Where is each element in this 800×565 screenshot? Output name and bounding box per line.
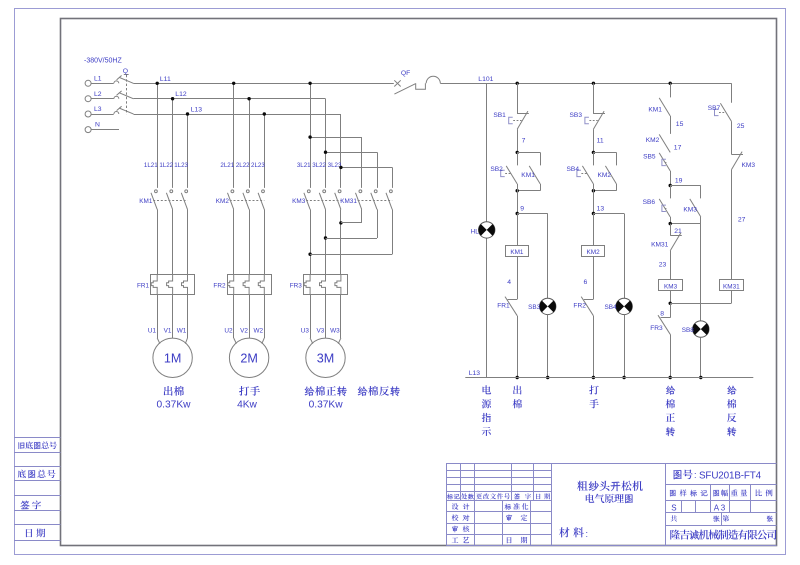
- pushbutton SB6 (NO): [643, 186, 671, 217]
- wire lamp2 to rail: [622, 315, 625, 380]
- wire 11: [594, 129, 604, 152]
- motor 2M: [229, 338, 268, 377]
- coil KM1: [506, 246, 529, 257]
- lamp SB4: [605, 298, 633, 314]
- terminal L1: [85, 76, 114, 87]
- lamp SB3: [528, 298, 556, 314]
- label 出棉 (vertical): [513, 385, 522, 408]
- label 出棉 0.37Kw: [157, 386, 192, 410]
- svg-text:3L21: 3L21: [297, 162, 311, 169]
- svg-text:U3: U3: [301, 327, 310, 334]
- wire HL branch: [486, 83, 488, 377]
- wire KM31 output phase 3 crossover: [310, 209, 392, 254]
- wire KM2 output phase 3: [264, 209, 266, 274]
- wire rail to KM1 contact: [670, 83, 672, 97]
- svg-text:KM2: KM2: [646, 137, 660, 144]
- wire 7: [518, 129, 526, 152]
- node SB2/KM1 join: [516, 189, 519, 192]
- svg-text:FR2: FR2: [213, 282, 226, 289]
- node 11: [592, 151, 595, 154]
- node 9: [516, 212, 519, 215]
- wire KM31 feed phase 1: [308, 135, 361, 187]
- svg-text:23: 23: [659, 261, 667, 268]
- svg-text:11: 11: [597, 137, 604, 144]
- breaker Q pole 1: [114, 76, 134, 84]
- svg-text:KM2: KM2: [587, 249, 601, 256]
- wire KM31 feed phase 2: [324, 151, 378, 188]
- left ID strip grid: [14, 438, 61, 541]
- wire KM3 output phase 1: [308, 209, 311, 274]
- svg-text:QF: QF: [401, 70, 410, 77]
- wire KM3 output phase 2: [324, 209, 327, 274]
- wire L13 bus: [134, 107, 341, 115]
- svg-text:1L23: 1L23: [174, 162, 188, 169]
- svg-text:SB2: SB2: [490, 166, 503, 173]
- circuit breaker QF: [394, 70, 440, 94]
- svg-text:8: 8: [660, 311, 664, 318]
- company name 隆吉诚机械制造有限公司: [670, 530, 776, 540]
- lamp HL: [471, 222, 495, 238]
- wire FR3 to L13 rail: [669, 334, 672, 379]
- wire KM3 output phase 3: [339, 209, 342, 274]
- contact KM3 aux (seal-in): [670, 186, 701, 217]
- node 21: [669, 217, 682, 235]
- contactor KM1 main contacts: [139, 190, 187, 209]
- label 给棉反转: [358, 386, 400, 396]
- svg-text:SB5: SB5: [643, 153, 656, 160]
- svg-text:19: 19: [675, 177, 683, 184]
- svg-text:V1: V1: [164, 327, 172, 334]
- labels U1 V1 W1: [148, 327, 187, 334]
- drawing title 电气原理图: [586, 494, 633, 503]
- node SB4/KM2 join: [592, 189, 595, 192]
- wire KM31 feed phase 3: [339, 166, 392, 188]
- svg-text:U2: U2: [224, 327, 233, 334]
- wire KM31 output phase 1 crossover: [341, 209, 362, 223]
- svg-text:L101: L101: [478, 76, 493, 83]
- wire feeder KM1 phase 1: [156, 82, 159, 188]
- wire 13 to coil: [593, 214, 595, 246]
- coil KM3: [659, 280, 683, 291]
- wire feeder KM1 phase 3: [186, 112, 189, 188]
- row 工艺 / 日期: [452, 537, 528, 543]
- wire 13: [594, 184, 605, 214]
- wire 9 to coil: [517, 214, 519, 246]
- contact KM2 aux (seal-in): [593, 152, 616, 190]
- svg-text:4Kw: 4Kw: [237, 399, 257, 410]
- wire rail corner to SB7: [731, 83, 733, 103]
- node rail-colD: [669, 82, 672, 85]
- svg-text:W3: W3: [330, 327, 340, 334]
- wire L11 bus: [134, 76, 394, 84]
- svg-text:SB4: SB4: [605, 304, 618, 311]
- title block outline: [446, 463, 776, 546]
- thermal relay FR1: [137, 275, 194, 295]
- pushbutton SB7 (NO): [708, 103, 732, 121]
- breaker Q pole 2: [114, 91, 134, 99]
- wire feeder KM3 phase 3: [340, 114, 342, 188]
- wire 25: [732, 121, 745, 154]
- contactor KM31 main contacts: [340, 190, 392, 209]
- svg-text::: :: [586, 529, 589, 539]
- wire L11 to control rail: [440, 76, 731, 84]
- svg-text:N: N: [95, 122, 100, 129]
- svg-text:7: 7: [522, 137, 526, 144]
- label 打手 (vertical): [589, 385, 599, 408]
- svg-text:SB6: SB6: [643, 199, 656, 206]
- svg-text:KM31: KM31: [723, 283, 740, 290]
- svg-text:L1: L1: [94, 76, 102, 83]
- svg-text:3M: 3M: [317, 351, 335, 365]
- label 旧底图总号: [18, 441, 56, 449]
- labels 1L21 1L22 1L23: [144, 162, 189, 169]
- svg-text:-380V/50HZ: -380V/50HZ: [84, 57, 122, 64]
- wire FR1 to L13 rail: [516, 316, 519, 379]
- svg-text:SFU201B-FT4: SFU201B-FT4: [699, 470, 762, 481]
- wire KM31 output phase 2 crossover: [326, 209, 378, 238]
- wire 6: [584, 257, 594, 300]
- coil KM2: [582, 246, 605, 257]
- wire KM1 output phase 1: [157, 209, 159, 274]
- svg-text:15: 15: [676, 121, 684, 128]
- svg-text:27: 27: [738, 216, 746, 223]
- svg-text:L13: L13: [469, 370, 481, 377]
- svg-text::: :: [694, 470, 697, 480]
- header 图样标记 图幅 重量 比例: [670, 489, 773, 496]
- svg-text:L11: L11: [160, 76, 171, 83]
- contact KM1 aux (NO): [648, 98, 670, 116]
- contactor KM2 main contacts: [216, 190, 265, 209]
- terminal N: [85, 122, 119, 133]
- label 给棉正转 0.37Kw: [305, 386, 347, 410]
- contact FR1 (NC thermal): [497, 297, 517, 316]
- svg-text:L2: L2: [94, 91, 102, 98]
- node 19: [669, 184, 672, 187]
- motor 1M: [153, 338, 192, 377]
- svg-text:HL: HL: [471, 228, 480, 235]
- lamp branch 出棉: [517, 214, 548, 299]
- svg-text:13: 13: [597, 205, 605, 212]
- wire coil KM31 to node 8: [670, 291, 731, 304]
- label 签字: [21, 500, 41, 509]
- pushbutton SB4 (NO): [567, 152, 594, 184]
- wire 8: [670, 291, 672, 304]
- svg-text:W1: W1: [177, 327, 187, 334]
- svg-text:W2: W2: [254, 327, 264, 334]
- contact FR3 (NC thermal): [650, 315, 670, 334]
- svg-text:KM3: KM3: [683, 206, 697, 213]
- wire KM2 output phase 2: [249, 209, 251, 274]
- cells S / A3: [671, 503, 726, 512]
- contact KM31 interlock (NC): [651, 224, 682, 251]
- svg-text:SB1: SB1: [493, 112, 506, 119]
- wire rail to SB1: [517, 83, 519, 114]
- labels 2L21 2L22 2L23: [220, 162, 265, 169]
- terminal L3: [85, 106, 114, 117]
- coil KM31: [720, 280, 744, 291]
- wire feeder KM3 phase 1: [308, 82, 311, 188]
- motor 3M leads: [310, 295, 341, 344]
- svg-text:SB7: SB7: [708, 105, 721, 112]
- svg-text:2L22: 2L22: [236, 162, 250, 169]
- wire 19: [671, 171, 683, 186]
- svg-text:L13: L13: [191, 107, 203, 114]
- motor 3M: [306, 338, 345, 377]
- svg-text:KM31: KM31: [651, 241, 669, 248]
- svg-text:FR3: FR3: [290, 282, 303, 289]
- row 审核: [452, 526, 469, 533]
- svg-text:SB4: SB4: [567, 166, 580, 173]
- label 底图总号: [18, 470, 56, 479]
- svg-text:17: 17: [674, 144, 682, 151]
- wire 27: [732, 170, 746, 280]
- wire rail to SB3: [593, 83, 595, 114]
- svg-text:KM2: KM2: [598, 172, 612, 179]
- svg-text:4: 4: [507, 279, 511, 286]
- pushbutton SB3 (NC): [570, 111, 605, 129]
- node 7: [516, 151, 519, 154]
- terminal L2: [85, 91, 114, 102]
- svg-text:KM1: KM1: [139, 198, 153, 205]
- labels 3L21 3L22 3L23: [297, 162, 342, 169]
- wire 23: [659, 251, 671, 280]
- svg-text:L3: L3: [94, 106, 102, 113]
- svg-text:Q: Q: [123, 68, 128, 75]
- svg-text:L12: L12: [175, 91, 187, 98]
- svg-text:KM1: KM1: [510, 249, 524, 256]
- svg-text:1M: 1M: [164, 351, 182, 365]
- contactor KM3 main contacts: [292, 190, 341, 209]
- svg-text:KM31: KM31: [340, 198, 357, 205]
- svg-text:9: 9: [520, 205, 524, 212]
- svg-text:0.37Kw: 0.37Kw: [157, 399, 192, 410]
- wire KM1 output phase 2: [172, 209, 174, 274]
- svg-text:KM1: KM1: [648, 107, 662, 114]
- drawing number 图号 SFU201B-FT4: [674, 469, 762, 481]
- label 材料: [559, 527, 588, 539]
- pushbutton SB5 (NO): [643, 153, 670, 171]
- motor 1M leads: [157, 295, 187, 344]
- svg-text:S: S: [671, 503, 676, 512]
- wire feeder KM2 phase 1: [232, 82, 235, 188]
- svg-text:KM3: KM3: [742, 162, 756, 169]
- label 给棉正转 (vertical): [666, 386, 676, 436]
- wire FR2 to L13 rail: [592, 316, 595, 379]
- label 日期: [26, 529, 45, 538]
- svg-text:SB3: SB3: [570, 112, 583, 119]
- label 电源指示: [482, 385, 491, 436]
- breaker Q pole 3: [114, 106, 134, 114]
- svg-text:KM3: KM3: [664, 283, 678, 290]
- wire lamp1 to rail: [546, 315, 549, 380]
- svg-text:2L21: 2L21: [220, 162, 234, 169]
- wire 15: [671, 116, 684, 134]
- svg-text:1L21: 1L21: [144, 162, 158, 169]
- wire feeder KM2 phase 3: [263, 112, 266, 188]
- svg-text:KM1: KM1: [521, 172, 535, 179]
- svg-text:KM2: KM2: [216, 198, 230, 205]
- svg-text:SB3: SB3: [528, 304, 541, 311]
- svg-text:U1: U1: [148, 327, 157, 334]
- right box grid: [666, 485, 777, 526]
- wire 9: [518, 184, 525, 214]
- node rail-SB3: [592, 82, 595, 85]
- node rail-SB1: [516, 82, 519, 85]
- pushbutton SB2 (NO): [490, 152, 517, 184]
- svg-text:SB8: SB8: [682, 327, 695, 334]
- svg-text:FR2: FR2: [573, 303, 586, 310]
- node 13: [592, 212, 595, 215]
- svg-text:6: 6: [584, 279, 588, 286]
- svg-text:V2: V2: [240, 327, 248, 334]
- wire feeder KM3 phase 2: [325, 99, 327, 188]
- wire feeder KM1 phase 2: [171, 97, 174, 188]
- supply label -380V/50HZ: [84, 57, 122, 64]
- wire 4: [507, 257, 517, 300]
- wire L13 return rail: [465, 370, 753, 378]
- svg-text:1L22: 1L22: [159, 162, 173, 169]
- svg-text:KM3: KM3: [292, 198, 306, 205]
- svg-text:FR1: FR1: [497, 303, 510, 310]
- revision table grid: [446, 463, 551, 546]
- wire node8 to FR3: [670, 303, 672, 318]
- wire KM1 output phase 3: [187, 209, 189, 274]
- labels U3 V3 W3: [301, 327, 340, 334]
- svg-text:A 3: A 3: [714, 503, 726, 512]
- svg-text:FR3: FR3: [650, 325, 663, 332]
- row 设计 / 标准化: [452, 503, 529, 510]
- wire L12 bus: [134, 91, 326, 98]
- motor 2M leads: [234, 295, 265, 344]
- svg-text:FR1: FR1: [137, 282, 150, 289]
- drawing title 粗纱头开松机: [577, 481, 642, 491]
- wire lamp3 to rail: [699, 337, 702, 379]
- svg-text:0.37Kw: 0.37Kw: [309, 399, 344, 410]
- node 8: [660, 302, 672, 318]
- lamp SB8: [682, 321, 709, 337]
- lamp branch 打手: [593, 214, 624, 299]
- label 打手 4Kw: [237, 386, 260, 410]
- svg-text:V3: V3: [316, 327, 324, 334]
- row 校对 / 审定: [452, 514, 528, 521]
- row 共张第张: [671, 515, 773, 522]
- label 给棉反转 (vertical): [727, 386, 737, 436]
- wire lamp3 branch: [700, 224, 702, 321]
- wire feeder KM2 phase 2: [247, 97, 250, 188]
- contact FR2 (NC thermal): [573, 297, 593, 316]
- pushbutton SB1 (NC): [493, 111, 528, 129]
- svg-text:2M: 2M: [240, 351, 258, 365]
- labels U2 V2 W2: [224, 327, 263, 334]
- svg-text:25: 25: [737, 123, 745, 130]
- thermal relay FR2: [213, 275, 271, 295]
- wire KM3 aux to node 21: [670, 217, 701, 224]
- contact KM2 aux (NO): [646, 134, 682, 152]
- svg-text:3L22: 3L22: [312, 162, 326, 169]
- revision header 标记 处数 更改文件号 签字 日期: [447, 493, 550, 499]
- svg-text:2L23: 2L23: [251, 162, 265, 169]
- contact KM1 aux (seal-in): [517, 152, 540, 190]
- contact KM3 interlock (NC): [731, 152, 755, 170]
- thermal relay FR3: [290, 275, 348, 295]
- breaker Q linkage: [123, 68, 129, 114]
- wire KM2 output phase 1: [233, 209, 235, 274]
